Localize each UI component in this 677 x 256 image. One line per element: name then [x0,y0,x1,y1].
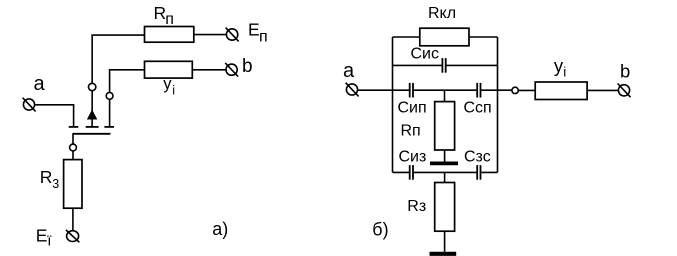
bottom wire left segment [393,171,410,173]
substrate arrow [88,111,97,119]
node circle before yi [512,87,518,93]
capacitor Sis [442,58,445,73]
top wire Rkl to right rail [469,36,498,38]
node junction circle (gate branch) [70,144,77,151]
svg-text:b: b [620,61,630,82]
resistor Rp (right, vertical) [435,102,455,150]
terminal a (left) [23,98,36,112]
source contact [69,126,79,128]
svg-text:R: R [40,167,53,187]
terminal a (right) [346,83,359,97]
wire node up to top rail [91,35,93,83]
wire R3 to ground [444,231,446,251]
gate lead [72,134,74,144]
bottom wire center segment [414,171,477,173]
wire substrate lead up [91,91,93,112]
wire node to yi [518,89,535,91]
wire main to Rp2 [444,90,446,101]
main wire right segment [481,89,512,91]
svg-text:Ссп: Ссп [464,99,492,116]
resistor Rkl [420,28,469,46]
svg-text:a: a [34,73,46,95]
svg-text:y: y [163,75,172,93]
svg-text:Сис: Сис [411,45,440,62]
bottom wire right segment [481,171,497,173]
svg-text:Сзс: Сзс [464,149,491,166]
resistor R3 (left) [64,160,82,209]
capacitor Ssp [477,83,480,98]
wire bottom junction to R3 [444,172,446,182]
wire yi to b [587,89,618,91]
resistor Rp [145,27,194,43]
capacitor Szs [477,165,480,180]
wire Rp to Ep [194,34,227,36]
resistor R3 (right) [435,183,455,232]
svg-text:b: b [242,56,253,77]
svg-text:E: E [36,226,48,246]
terminal b (left) [225,63,238,77]
svg-text:п: п [165,11,174,28]
svg-text:Rп: Rп [401,123,421,140]
wire yi to b [192,69,226,71]
wire gate node to R3 [72,151,74,160]
svg-text:3: 3 [52,177,59,191]
wire Sis right segment [447,64,498,66]
wire a to network / main wire left segment [358,89,409,91]
wire drain node to yi [110,70,145,93]
wire a to gate-side corner [35,105,74,126]
capacitor Sip [410,83,413,98]
transistor VT1 [69,111,114,145]
svg-text:Rкл: Rкл [428,5,456,22]
quadripole yi (left) [145,61,193,78]
wire Sis left segment [393,64,442,66]
svg-text:R: R [154,3,167,23]
svg-text:п: п [259,29,268,46]
terminal b (right) [618,84,631,98]
svg-text:Rз: Rз [407,198,426,215]
terminal Ep [226,28,239,42]
wire drain lead up [109,99,111,127]
svg-text:i: i [172,83,175,97]
gate electrode line [72,133,110,135]
left rail wire [392,37,394,172]
drain contact [104,126,114,128]
svg-text:Сип: Сип [398,99,427,116]
quadripole yi (right) [535,82,587,100]
svg-text:Сиз: Сиз [399,149,427,166]
wire top rail to Rp [91,34,144,36]
ground bar (under Rp) [430,161,458,165]
right rail wire [497,37,499,172]
node junction circle (drain branch) [106,93,113,100]
wire R3 to Ei [72,208,74,230]
svg-text:б): б) [372,220,388,240]
capacitor Siz [410,165,413,180]
top wire left to Rkl [393,36,420,38]
node junction circle (substrate branch) [88,83,95,90]
svg-text:E: E [248,20,260,40]
svg-text:а): а) [212,219,228,239]
main wire center segment [414,89,477,91]
wire Rp2 to ground [444,150,446,162]
svg-text:a: a [343,60,355,82]
svg-text:i: i [563,65,566,80]
terminal Ei [66,230,80,242]
ground bar (bottom) [430,252,457,256]
substrate contact [86,126,99,128]
